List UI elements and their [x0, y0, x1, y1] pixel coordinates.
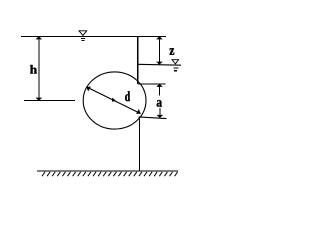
dimension z arrow up — [156, 36, 163, 39]
dimension h line — [38, 37, 40, 101]
upstream water surface line — [21, 36, 166, 38]
label z — [170, 48, 175, 54]
diameter arrow shaft — [86, 87, 140, 114]
diameter arrowhead lower-right — [136, 109, 141, 114]
circle center level line — [24, 100, 75, 102]
downstream water surface line — [138, 63, 181, 66]
upstream symbol dash 1 — [81, 38, 85, 40]
downstream water-level symbol (triangle) — [172, 60, 179, 64]
upstream symbol dash 2 — [82, 40, 85, 42]
center tick on diameter arrow — [112, 98, 117, 102]
dimension h arrow up — [36, 36, 43, 39]
dimension a arrow down — [157, 115, 164, 118]
wall upper segment — [137, 37, 139, 85]
dimension z arrow down — [156, 62, 163, 65]
dimension a line upper segment — [159, 84, 161, 96]
dimension h arrow down — [36, 98, 43, 101]
ground line — [37, 170, 178, 172]
ground hatching — [42, 172, 178, 176]
label a — [157, 100, 162, 107]
circular gate (ellipse) — [83, 72, 146, 129]
dimension z line — [158, 37, 160, 65]
upstream water-level symbol (triangle) — [79, 31, 87, 36]
downstream symbol dash 1 — [174, 67, 179, 69]
dimension a line lower segment — [159, 108, 161, 118]
dimension a arrow up — [156, 84, 163, 87]
dimension a top extension line — [138, 83, 165, 85]
wall lower segment — [139, 117, 141, 172]
downstream symbol dash 2 — [174, 70, 177, 72]
label d — [125, 91, 130, 101]
dimension a bottom extension line — [139, 117, 167, 119]
label h — [30, 65, 37, 74]
diameter arrowhead upper-left — [86, 87, 91, 92]
